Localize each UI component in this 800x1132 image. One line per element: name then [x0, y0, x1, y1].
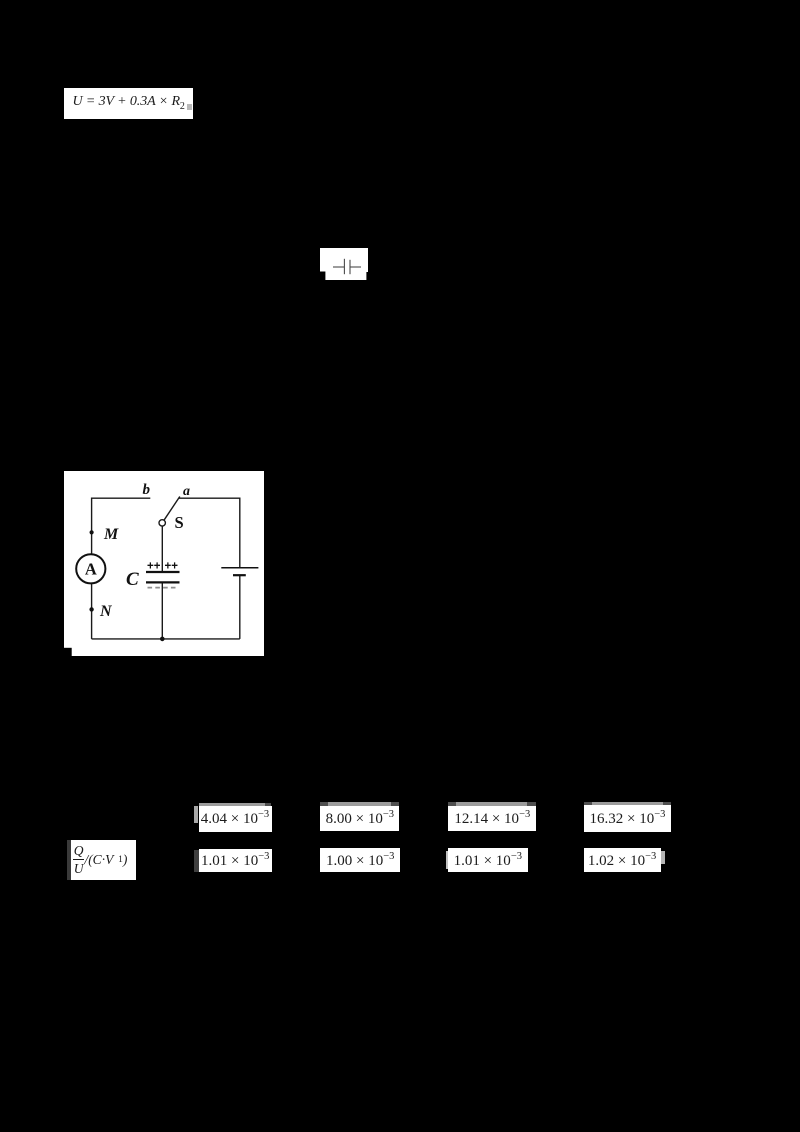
switch pivot circle	[159, 520, 165, 526]
node N	[89, 607, 93, 611]
svg-text:a: a	[183, 484, 190, 499]
black notch bottom-left	[320, 272, 325, 281]
svg-text:M: M	[103, 526, 119, 543]
svg-text:S: S	[175, 513, 184, 532]
wire left below ammeter	[91, 583, 93, 639]
formula box U = 3V + 0.3A x R2	[64, 88, 193, 119]
table row1 cell2 8.00e-3	[320, 802, 328, 806]
circuit diagram white panel	[64, 471, 264, 656]
table row1 cell3 12.14e-3	[448, 802, 456, 806]
table row2 cell1 1.01e-3	[194, 850, 199, 872]
wire bottom	[92, 638, 240, 640]
table row2 label Q/U	[67, 840, 70, 880]
svg-text:b: b	[143, 482, 151, 498]
wire top-right segment from a	[179, 498, 240, 567]
table row1 cell1 4.04e-3	[199, 803, 264, 806]
junction node	[160, 637, 165, 642]
svg-text:A: A	[85, 560, 97, 579]
capacitor symbol	[333, 259, 361, 274]
black notch bottom-right	[366, 272, 368, 280]
svg-text:++: ++	[165, 561, 179, 573]
table row2 cell2 1.00e-3	[395, 848, 400, 853]
node M	[90, 530, 94, 534]
wire capacitor branch lower	[161, 583, 163, 639]
capacitor symbol box	[320, 248, 368, 280]
ammeter A	[76, 554, 105, 583]
table row1 cell4 16.32e-3	[584, 802, 593, 806]
capacitor C plates	[146, 571, 180, 573]
wire top-left segment to b	[92, 498, 151, 554]
svg-text:C: C	[126, 569, 139, 590]
formula cursor	[187, 104, 192, 111]
battery plate long	[221, 567, 258, 569]
svg-text:++: ++	[147, 561, 161, 573]
capacitor minus charges	[148, 587, 178, 589]
switch S arm	[164, 497, 180, 521]
battery plate short	[233, 574, 246, 576]
wire capacitor branch upper	[161, 526, 163, 571]
svg-text:N: N	[99, 603, 113, 620]
wire battery lower	[239, 575, 241, 639]
notch in panel corner	[64, 648, 72, 656]
table row2 cell3 1.01e-3	[446, 851, 448, 869]
table row2 cell4 1.02e-3	[661, 851, 665, 865]
